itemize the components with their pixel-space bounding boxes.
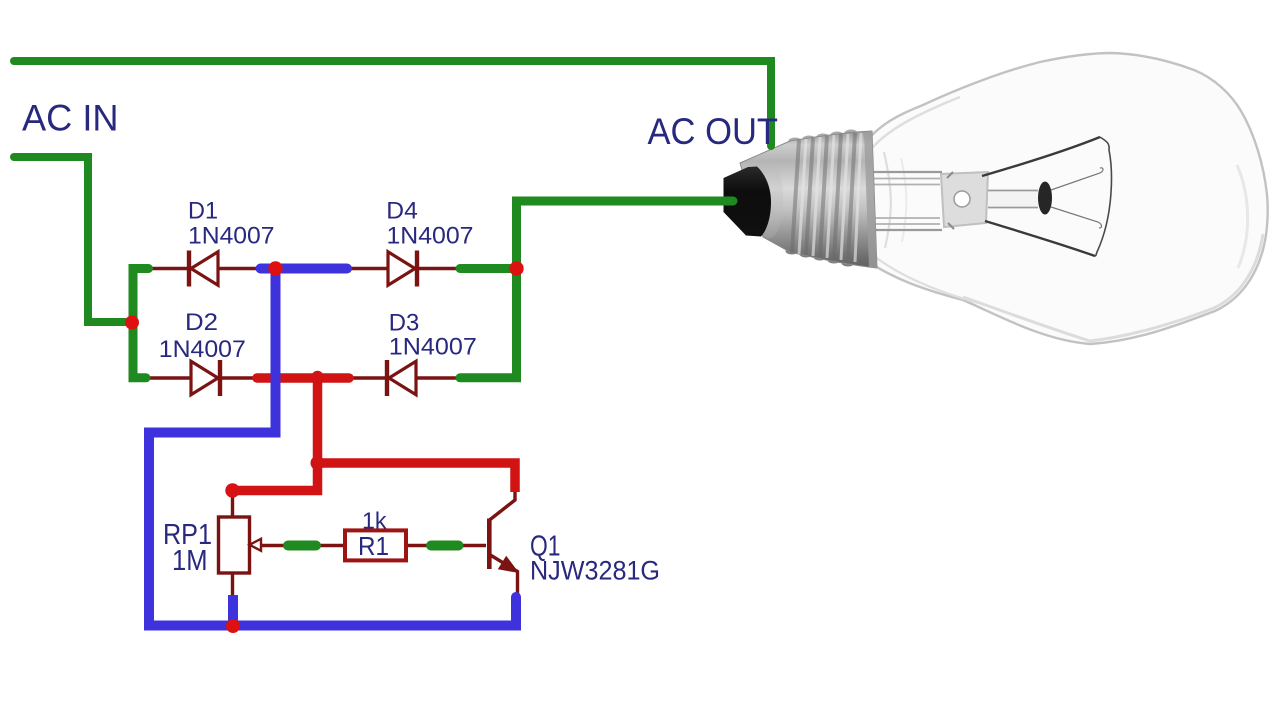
resistor R1 1k [345, 530, 406, 560]
wire: AC IN lower stub down to bridge [14, 157, 126, 322]
net N$1: AC line top (green) [14, 61, 771, 322]
wire: bridge right leg D3/D4 up to bulb [460, 201, 733, 378]
wire: bridge left leg D1/D2 [133, 269, 149, 378]
wire: center top link D1-D4 [261, 264, 348, 274]
glass neck reflections [872, 97, 960, 148]
wire: RP1 bottom stub [228, 595, 238, 626]
wire: RP1 top lead [231, 489, 234, 518]
node: RP1 top junction [225, 483, 239, 497]
diode D1 1N4007 [189, 251, 218, 287]
base collar shadow [760, 160, 783, 238]
wire: D3 leads [349, 376, 386, 379]
svg-text:D1: D1 [188, 198, 218, 225]
svg-text:1N4007: 1N4007 [389, 334, 477, 361]
node: blue center junction [268, 261, 282, 275]
black bead [1038, 182, 1052, 215]
diode D3 1N4007 [387, 360, 416, 396]
svg-text:1N4007: 1N4007 [188, 223, 275, 250]
svg-text:R1: R1 [358, 531, 389, 561]
svg-text:AC IN: AC IN [22, 97, 119, 139]
center support rod [988, 190, 1038, 192]
node: AC IN to bridge left [125, 316, 139, 330]
wire: right branch to Q1 collector [318, 463, 516, 492]
diode D4 1N4007 [388, 251, 417, 287]
net: DC minus (blue) [149, 269, 516, 626]
transistor Q1 NJW3281G [489, 519, 519, 574]
svg-text:1N4007: 1N4007 [387, 223, 474, 250]
wire: D4 output stub [460, 264, 517, 273]
net: bridge + output (bright red) [235, 378, 515, 492]
dark red thin leads [150, 269, 518, 598]
wire: RP1 wiper lead [262, 544, 289, 547]
wire: top rail from AC IN to AC OUT drop [14, 61, 771, 146]
wire: Q1 collector lead [490, 491, 516, 520]
node: red branch junction [311, 456, 325, 470]
diode D2 1N4007 [191, 360, 220, 396]
wire: Q1 base lead [457, 544, 486, 547]
glass inner soft edge bottom [963, 234, 1263, 341]
glass envelope [866, 53, 1268, 344]
wire: blue main loop to Q1 emitter [149, 269, 516, 626]
wire: red vertical drop + left branch to RP1 [235, 378, 318, 491]
svg-text:D4: D4 [386, 198, 418, 225]
wire: D4 leads [350, 267, 388, 270]
wire: RP1 bottom lead [231, 572, 234, 597]
svg-text:D2: D2 [185, 309, 218, 336]
filament support wires [982, 137, 1100, 176]
filament anchor wires [1051, 168, 1103, 190]
wire: R1 to Q1 base green link [431, 541, 459, 551]
svg-text:1M: 1M [172, 545, 208, 577]
base skirt ring [864, 131, 877, 268]
node: green bridge output junction [509, 261, 523, 275]
thread crevices [792, 133, 855, 261]
black insulator tip [724, 167, 772, 237]
screw base thread bumps (top silhouette) [789, 130, 858, 145]
wire: D2 leads [150, 376, 190, 379]
svg-text:NJW3281G: NJW3281G [530, 555, 660, 585]
glass stem tube [870, 172, 942, 230]
wire: RP1 wiper green link [288, 541, 316, 551]
svg-text:D3: D3 [389, 309, 420, 336]
wire: D1 leads [150, 267, 188, 270]
screw base body [740, 131, 877, 268]
svg-text:1N4007: 1N4007 [159, 336, 246, 363]
wire: R1 left lead [317, 544, 346, 547]
stem pinch clip [941, 172, 988, 229]
node: RP1 bottom blue junction [226, 619, 240, 633]
wire: bottom bridge bus D2-D3 [257, 373, 349, 383]
wire: Q1 emitter lead [490, 555, 518, 596]
filament coil [1095, 137, 1111, 256]
svg-text:AC OUT: AC OUT [648, 110, 779, 152]
wire: R1 right lead [405, 544, 432, 547]
potentiometer RP1 1M [219, 517, 262, 573]
node: red bus junction [311, 371, 323, 383]
svg-text:1k: 1k [362, 507, 387, 533]
lamp LA1 (incandescent bulb photo) [724, 53, 1268, 344]
